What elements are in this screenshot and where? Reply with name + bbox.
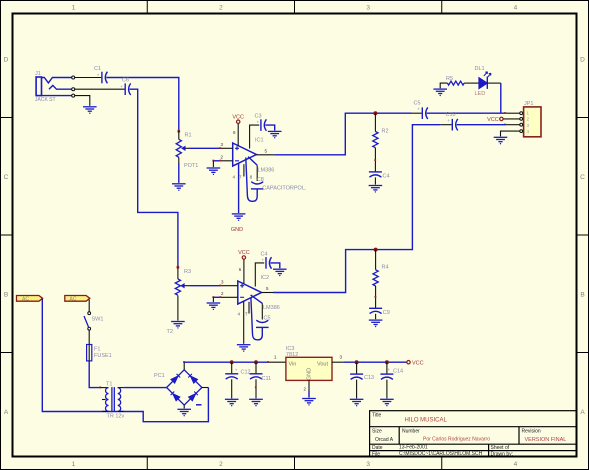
LED DL1 [479, 77, 487, 89]
svg-text:D: D [580, 57, 585, 64]
ground at C4a [369, 186, 383, 193]
frame tick marks left [1, 118, 13, 353]
IC3 pin3 lead [332, 361, 344, 363]
junction dot R2 [373, 111, 377, 115]
C9 lead to gnd [375, 314, 377, 319]
svg-text:POT1: POT1 [184, 163, 198, 169]
IC1 pin numbers 4 7 8 [233, 175, 253, 180]
svg-text:Title: Title [372, 413, 381, 419]
bridge top junction tick [183, 361, 185, 363]
capacitor C10 [452, 119, 458, 131]
bridge bottom lead [183, 405, 185, 408]
svg-text:C13: C13 [364, 375, 374, 381]
svg-text:F1: F1 [94, 347, 100, 353]
fuse to transformer [89, 361, 100, 388]
bridge top lead [183, 362, 185, 370]
wire C10 to JP1 pin3 [457, 124, 505, 126]
svg-text:R3: R3 [184, 269, 191, 275]
IC2 pin3 tick [219, 285, 221, 287]
IC1 pin6 VCC lead [237, 124, 239, 146]
IC1 bypass diagonal [248, 157, 257, 166]
svg-text:SW1: SW1 [92, 317, 104, 323]
C3 elbow lead [250, 125, 260, 148]
R3 top lead [177, 267, 179, 279]
AC2 lead to switch [88, 300, 90, 312]
svg-text:T1: T1 [106, 381, 112, 387]
C12 lead [231, 362, 233, 374]
bridge diode TL [171, 374, 180, 383]
svg-text:Vout: Vout [317, 362, 328, 368]
ground below IC1 [232, 214, 246, 221]
wire C1 to pot R1 [106, 78, 179, 131]
ground at C12 [225, 399, 239, 406]
IC3 pin1 lead [269, 361, 286, 363]
wire IC2 pin2 to gnd [213, 296, 220, 298]
svg-text:CAPACITORPOL.: CAPACITORPOL. [262, 185, 307, 191]
pin2 junction ticks [212, 160, 214, 162]
svg-text:2: 2 [219, 5, 223, 12]
JP1 pin4 circle [520, 130, 523, 133]
fuse F1 [87, 345, 92, 361]
R4 junction tick [375, 296, 377, 298]
IC3 pin2 lead [308, 380, 310, 390]
capacitor C4 [266, 257, 272, 269]
svg-text:4: 4 [514, 461, 518, 468]
T1 secondary bottom lead [118, 410, 124, 412]
junction dot C11 [254, 360, 258, 364]
regulator IC3 body [286, 357, 332, 380]
svg-text:Date: Date [372, 445, 383, 451]
C14 lead to gnd [386, 380, 388, 399]
C4a lead to gnd [374, 177, 376, 184]
svg-text:JP1: JP1 [524, 101, 533, 107]
svg-text:+: + [257, 120, 260, 125]
resistor R5 [447, 81, 464, 85]
bridge rectifier PC1 [167, 370, 202, 405]
pin lead sleeve to gnd [75, 96, 90, 106]
junction dot C12 [230, 360, 234, 364]
svg-text:+: + [388, 367, 391, 372]
svg-text:VCC: VCC [487, 117, 499, 123]
junction dot C13 [355, 360, 359, 364]
svg-text:7812: 7812 [286, 352, 298, 358]
T1 primary mid stub [102, 399, 106, 401]
ground below POT1 [172, 184, 186, 191]
C5 lead left [412, 112, 422, 114]
R3 wiper arrow [180, 283, 184, 288]
POT1 wiper lead [185, 147, 189, 149]
svg-text:GND: GND [307, 368, 313, 380]
ground at IC1 pin2 [207, 168, 221, 175]
svg-text:C5: C5 [414, 101, 421, 107]
LED arrows [484, 72, 491, 78]
ground at C14 [380, 399, 394, 406]
potentiometer POT1 lead top [178, 131, 180, 139]
C11 lead to gnd [255, 379, 257, 398]
svg-text:A: A [580, 409, 585, 416]
wire AC1 to transformer and bridge [42, 299, 208, 422]
C14 lead [386, 362, 388, 374]
svg-text:LM386: LM386 [263, 305, 280, 311]
frame tick marks right [577, 118, 589, 353]
ground at JP1 pin4 [494, 137, 508, 144]
svg-text:Sheet of: Sheet of [491, 445, 510, 451]
IC1 pin stubs 4 7 [243, 164, 245, 176]
C11 lead [255, 362, 257, 374]
wire POT1 to ground [178, 163, 180, 183]
junction dot R4 [374, 248, 378, 252]
ground at jack [83, 107, 97, 114]
connector JP1 body [524, 107, 541, 137]
IC1 gnd stem pin4 [238, 163, 240, 213]
svg-text:TR 12v: TR 12v [107, 413, 125, 419]
svg-text:LED: LED [475, 91, 486, 97]
IC2 pin6 VCC lead [243, 260, 245, 284]
transformer T1 primary lead [100, 387, 108, 389]
svg-text:IC2: IC2 [261, 275, 270, 281]
wire C3 to gnd [265, 125, 274, 130]
wire secondary to bridge [124, 387, 167, 389]
JP1 pin2 circle [520, 118, 523, 121]
VCC circle JP1 [500, 117, 503, 120]
svg-text:AC: AC [70, 296, 77, 302]
svg-text:4: 4 [514, 5, 518, 12]
VCC output wire [344, 361, 407, 363]
svg-text:3: 3 [366, 5, 370, 12]
port AC1 [17, 296, 43, 302]
svg-text:Orcad A: Orcad A [375, 437, 394, 443]
DC bus wire [184, 361, 268, 363]
R5 ground [440, 83, 447, 88]
capacitor C5b [256, 320, 269, 327]
capacitor C6 [125, 83, 131, 95]
LED cathode lead [487, 82, 501, 84]
capacitor C5 [422, 107, 428, 119]
svg-text:+: + [120, 84, 123, 89]
capacitor C12 [225, 374, 238, 379]
IC2 bypass U loop [251, 298, 262, 340]
jack tip contact [42, 78, 72, 83]
wire C6 down to R3 [130, 89, 178, 267]
VCC circle IC1 [237, 120, 240, 123]
IC1 bypass pin lead [256, 165, 258, 181]
wire C4 to gnd [270, 263, 279, 268]
svg-text:C: C [4, 174, 9, 181]
frame tick marks top [147, 1, 442, 13]
bus tick at IC3 [267, 361, 269, 363]
IC2 output pin5 [262, 292, 274, 294]
T1 primary bottom lead [102, 410, 109, 412]
R5 lead to LED [464, 82, 479, 84]
IC2 pin numbers 4 7 [238, 312, 249, 317]
capacitor C1 [102, 72, 108, 84]
wire IC1 out to bus [275, 113, 412, 155]
svg-text:VCC: VCC [238, 250, 250, 256]
svg-text:+: + [97, 72, 100, 77]
title block labels [372, 413, 541, 458]
wire R3 wiper to IC2 pin3 [190, 285, 220, 287]
capacitor C3 [261, 119, 267, 131]
bridge diode BR [189, 391, 198, 400]
svg-text:PC1: PC1 [154, 373, 165, 379]
port AC2 [65, 296, 90, 302]
svg-text:DL1: DL1 [475, 66, 485, 72]
ground below bridge [177, 409, 191, 416]
wire IC1 pin2 to gnd [213, 160, 220, 162]
potentiometer R3 body [175, 279, 180, 295]
svg-text:Size: Size [372, 429, 382, 435]
svg-text:C4: C4 [383, 174, 390, 180]
bridge minus sign [196, 404, 202, 406]
IC2 pin3 [221, 285, 238, 287]
frame row labels [4, 57, 586, 417]
POT1 bottom lead [178, 157, 180, 163]
IC1 pin2 [221, 160, 233, 162]
svg-text:R5: R5 [446, 76, 453, 82]
IC1 bypass U loop [246, 158, 257, 202]
svg-text:+: + [262, 257, 265, 262]
frame column labels [72, 5, 518, 469]
svg-text:R2: R2 [382, 129, 389, 135]
svg-text:1: 1 [72, 461, 76, 468]
jack sleeve wire [42, 95, 72, 97]
svg-text:Por Carlos Rodriguez Navarro: Por Carlos Rodriguez Navarro [423, 436, 490, 442]
svg-text:+: + [235, 368, 238, 373]
svg-text:J1: J1 [35, 71, 41, 77]
svg-text:3: 3 [366, 461, 370, 468]
IC1 output pin5 [256, 154, 274, 156]
svg-text:C6: C6 [122, 78, 129, 84]
ground below IC2 [237, 345, 251, 352]
transformer T1 [106, 387, 121, 412]
svg-text:C8: C8 [257, 177, 264, 183]
svg-text:R1: R1 [185, 133, 192, 139]
R4 lead bottom [375, 286, 377, 308]
capacitor C8 [251, 182, 264, 189]
capacitor C4a [369, 172, 382, 177]
R3 bottom lead [177, 296, 179, 321]
bridge right lead [202, 387, 209, 389]
wire wiper to IC1 pin3 [190, 147, 221, 149]
IC2 gnd stem pin4 [243, 301, 245, 344]
svg-text:AC: AC [22, 296, 29, 302]
svg-text:2: 2 [219, 461, 223, 468]
switch SW1 [84, 312, 91, 330]
potentiometer POT1 body [176, 139, 181, 157]
svg-text:B: B [580, 292, 584, 299]
svg-text:T2: T2 [167, 329, 173, 335]
svg-text:C5: C5 [264, 316, 271, 322]
svg-text:C:\MISDOC~1\CARLOS\HILOM.SCH: C:\MISDOC~1\CARLOS\HILOM.SCH [399, 451, 483, 457]
JP1 pin1 tick [504, 112, 506, 114]
JP1 pin numbers [527, 111, 530, 134]
svg-text:C12: C12 [241, 369, 251, 375]
svg-text:Drawn by:: Drawn by: [491, 451, 514, 457]
frame tick marks bottom [147, 457, 442, 469]
JP1 pin4 lead [501, 131, 520, 136]
svg-text:D: D [4, 57, 9, 64]
junction at POT1 top [178, 130, 181, 133]
JP1 pin3 circle [520, 123, 523, 126]
svg-text:File: File [372, 451, 380, 457]
bridge diode TR [188, 374, 197, 383]
C13 lead to gnd [356, 380, 358, 399]
capacitor C13 [350, 374, 363, 379]
svg-text:FUSE1: FUSE1 [94, 353, 112, 359]
svg-text:+: + [417, 107, 420, 112]
R2 lead top [374, 113, 376, 131]
transformer junction tick [99, 387, 101, 389]
junction dot C14 [385, 360, 389, 364]
junction at R3 top [177, 266, 180, 269]
svg-text:JACK ST: JACK ST [35, 97, 56, 103]
ground at IC3 [302, 399, 316, 406]
R4 lead top [375, 250, 377, 270]
R2 lead bottom [374, 148, 376, 172]
op-amp IC2 [238, 281, 262, 304]
ground at C9 [369, 320, 383, 327]
IC2 bypass pin lead [261, 303, 263, 319]
capacitor C9 [369, 308, 382, 313]
wire LED down to pin1 net [500, 83, 502, 113]
C13 lead [356, 362, 358, 374]
svg-text:LM386: LM386 [258, 168, 275, 174]
IC3 pin2 wire to gnd [308, 391, 310, 398]
svg-text:IC1: IC1 [255, 138, 264, 144]
C11 tick [255, 386, 257, 388]
T1 secondary top lead [118, 387, 124, 389]
svg-text:B: B [4, 292, 8, 299]
svg-text:C9: C9 [383, 310, 390, 316]
IC1 pin2 gnd stem [212, 161, 214, 167]
IC1 pin3 [221, 147, 233, 149]
connector J1 jack body [36, 77, 41, 96]
ground at IC2 pin2 [207, 303, 221, 310]
bridge diode BL [171, 391, 180, 400]
JP1 pin3 tick [504, 124, 506, 126]
ground at C4 [273, 269, 287, 276]
jack ring contact [49, 85, 72, 89]
op-amp IC1 [233, 143, 257, 166]
resistor R2 [373, 132, 378, 148]
pin lead ring to C6 [75, 88, 125, 90]
VCC circle output [407, 361, 410, 364]
ground below R3 [171, 322, 185, 329]
wire IC2 out to C10 [273, 125, 441, 293]
pin lead tip to C1 [75, 77, 102, 79]
svg-text:R4: R4 [382, 265, 389, 271]
IC2 pin2 ticks [212, 296, 214, 298]
svg-text:C11: C11 [262, 376, 272, 382]
IC1 pin3 junction tick [219, 147, 221, 149]
IC2 pin stubs 4 7 [248, 302, 250, 314]
jack terminal circles [72, 76, 75, 97]
ground at C3 [268, 131, 282, 138]
capacitor C11 [250, 374, 263, 379]
svg-text:C10: C10 [446, 112, 456, 118]
svg-text:IC3: IC3 [286, 346, 295, 352]
svg-text:Revision: Revision [522, 429, 541, 435]
svg-text:1: 1 [72, 5, 76, 12]
JP1 pin2 lead [503, 118, 519, 120]
svg-text:13-Feb-2001: 13-Feb-2001 [399, 445, 428, 451]
svg-text:GND: GND [231, 227, 243, 233]
C4 elbow lead [255, 263, 264, 287]
svg-text:C: C [580, 174, 585, 181]
svg-text:VCC: VCC [412, 361, 424, 367]
C12 lead to gnd [231, 379, 233, 398]
svg-text:HILO MUSICAL: HILO MUSICAL [405, 417, 448, 423]
title block [370, 411, 577, 457]
wire C5 to JP1 [427, 112, 505, 114]
R2 lead junction tick [374, 159, 376, 161]
svg-text:A: A [4, 409, 9, 416]
svg-text:Vin: Vin [289, 362, 297, 368]
JP1 pin1 lead [506, 112, 520, 114]
ground at C13 [350, 399, 364, 406]
svg-text:C1: C1 [94, 66, 101, 72]
JP1 pin3 lead [506, 124, 520, 126]
IC2 pin2 [221, 296, 238, 298]
ground at C11 [249, 399, 263, 406]
POT1 wiper arrow [181, 146, 185, 151]
svg-text:+: + [447, 118, 450, 123]
svg-text:Number: Number [402, 429, 420, 435]
svg-text:C14: C14 [393, 368, 403, 374]
JP1 pin1 circle [520, 112, 523, 115]
SW1 to fuse lead [88, 330, 90, 344]
VCC circle IC2 [242, 256, 245, 259]
R3 wiper lead [184, 285, 190, 287]
capacitor C14 [380, 374, 393, 379]
svg-text:VCC: VCC [232, 114, 244, 120]
svg-text:VERSION FINAL: VERSION FINAL [525, 437, 567, 443]
resistor R4 [373, 270, 378, 286]
C10 lead left [441, 124, 452, 126]
IC2 bypass diagonal [251, 295, 263, 303]
IC2 pin2 gnd stem [212, 297, 214, 302]
